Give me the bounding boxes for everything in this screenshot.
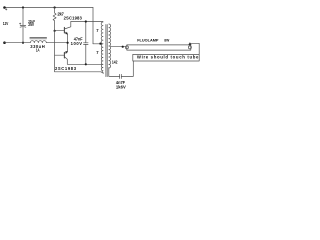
- plus sign: [5, 9, 7, 11]
- node emitters junction: [67, 42, 69, 44]
- wire secondary bottom lead: [109, 68, 120, 77]
- plus sign C1: [19, 23, 21, 25]
- resistor R1 2k7: [53, 8, 56, 31]
- transformer T1 core: [106, 25, 107, 77]
- inductor L1 330uH: [30, 41, 46, 43]
- wire Q1 base lead: [55, 29, 65, 31]
- svg-text:2SC1983: 2SC1983: [64, 15, 83, 20]
- fluorescent tube outline: [127, 45, 191, 50]
- wire 22uF top lead: [22, 8, 24, 26]
- node 2k7 top junction: [54, 6, 56, 8]
- node C2 bottom junction: [85, 63, 87, 65]
- node 22uF top junction: [22, 6, 24, 8]
- wire base bias line down: [54, 31, 56, 72]
- node 22uF bottom junction: [22, 42, 24, 44]
- node lamp feed dot: [122, 46, 124, 48]
- wire secondary to lamp: [110, 46, 125, 48]
- wire Q2 collector line: [67, 63, 103, 65]
- svg-text:100V: 100V: [71, 41, 83, 46]
- wire +12V feed down to center tap: [92, 8, 94, 44]
- wire top +12V rail: [5, 7, 94, 9]
- electrode left: [125, 46, 128, 49]
- starter strip rectangle: [133, 54, 199, 61]
- transformer T1 secondary winding: [109, 24, 111, 68]
- wire right end to strip: [190, 43, 199, 54]
- svg-text:8W: 8W: [164, 38, 169, 43]
- wire center tap to primary: [93, 43, 103, 45]
- wire feedback return bottom: [55, 72, 103, 73]
- transistor Q2 2SC1983: [63, 52, 65, 58]
- node right pin blob: [189, 43, 192, 45]
- node center tap dot: [99, 43, 101, 45]
- svg-text:7: 7: [96, 50, 99, 55]
- wire bottom return rail: [5, 42, 68, 44]
- transformer T1 primary winding: [101, 22, 104, 73]
- svg-text:25V: 25V: [28, 22, 34, 27]
- wire Q1 collector line: [71, 21, 103, 23]
- node plus terminal: [3, 6, 6, 9]
- capacitor C1 22uF plates: [20, 24, 26, 26]
- svg-text:1A: 1A: [36, 47, 40, 52]
- svg-text:Wire should touch tube: Wire should touch tube: [137, 54, 199, 59]
- node minus terminal: [3, 41, 6, 44]
- transistor Q1 2SC1983: [63, 27, 65, 33]
- svg-text:1k6V: 1k6V: [116, 84, 126, 89]
- svg-text:142: 142: [112, 60, 118, 65]
- wire right electrode up: [189, 43, 191, 46]
- inductor L1 core lines: [30, 38, 47, 39]
- capacitor C2 47nF plates: [84, 43, 89, 45]
- capacitor C3 4n7F plates: [120, 74, 122, 78]
- wire C3 to strip: [121, 61, 133, 76]
- wire 22uF bottom lead: [22, 27, 24, 42]
- capacitor C2 47nF leads: [85, 22, 87, 65]
- node C2 top junction: [85, 20, 87, 22]
- wire Q2 base lead: [55, 54, 65, 56]
- svg-text:7: 7: [96, 28, 99, 33]
- svg-text:FLUOLAMP: FLUOLAMP: [137, 38, 159, 43]
- electrode right: [188, 46, 191, 49]
- svg-text:2SC1983: 2SC1983: [55, 66, 77, 71]
- node R1 base junction: [54, 30, 56, 32]
- svg-text:12V: 12V: [3, 21, 9, 26]
